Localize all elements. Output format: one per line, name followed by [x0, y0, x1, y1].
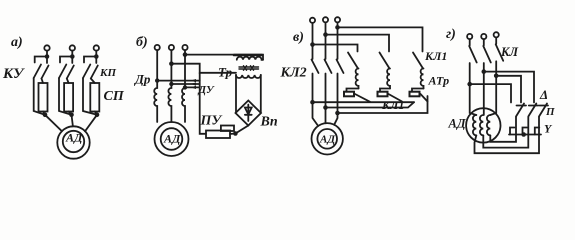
contact KU blade 2	[59, 65, 66, 79]
terminal 3	[94, 45, 99, 50]
svg-text:АД: АД	[163, 132, 181, 146]
node line1	[467, 82, 472, 87]
node tap3	[183, 85, 187, 89]
resistor R1	[39, 83, 48, 112]
contact KL blade 1	[469, 46, 477, 63]
switch P blade 3	[539, 104, 547, 117]
autotransformer winding 2	[387, 69, 390, 89]
resistor R2	[64, 83, 73, 112]
transformer Tr core lines	[239, 66, 259, 70]
wire winding2 end to pole2	[483, 117, 528, 148]
node PU right	[233, 131, 238, 136]
svg-text:ПУ: ПУ	[200, 114, 224, 129]
motor AD outer circle	[155, 122, 189, 156]
wire blade to resistor 3	[91, 79, 95, 84]
wire bus C	[338, 96, 428, 113]
arrow tap3	[191, 86, 197, 89]
wire blade to resistor 2	[67, 79, 69, 84]
wire tap2	[171, 83, 199, 85]
motor AD outer circle	[57, 126, 89, 158]
contact KU blade 3	[83, 65, 90, 79]
terminal 3	[494, 32, 499, 37]
node line3	[494, 74, 499, 79]
autotransformer winding 3	[421, 69, 424, 89]
svg-text:КЛ2: КЛ2	[280, 66, 307, 81]
node bus C	[335, 111, 340, 116]
node bus A	[310, 100, 315, 105]
svg-text:КУ: КУ	[2, 66, 25, 82]
contact KP blade 2	[67, 66, 74, 79]
svg-text:П: П	[545, 106, 555, 118]
node phase2 top	[70, 54, 75, 59]
switch P bar 2	[529, 105, 539, 107]
wire L-stub 1	[35, 57, 47, 63]
contact KL blade 2	[483, 46, 491, 63]
node phase2 bottom	[69, 113, 74, 118]
node line2	[169, 61, 174, 66]
switch P bar 3	[540, 105, 549, 107]
wire contact stem 2	[71, 57, 73, 64]
wire feed A to P switch	[470, 84, 511, 102]
wire bypass 3	[83, 78, 97, 115]
wire tap1	[157, 80, 200, 82]
svg-text:КЛ: КЛ	[500, 45, 518, 59]
wire bypass 1	[34, 78, 45, 115]
wire stem 2	[483, 39, 485, 45]
svg-text:АД: АД	[319, 133, 335, 145]
node phase3 bottom	[95, 113, 100, 118]
transformer Tr secondary winding	[236, 75, 261, 78]
star contact stub 1	[510, 128, 515, 135]
contact pad 3	[410, 92, 420, 97]
choke Dr phase2	[168, 50, 171, 122]
svg-text:АД: АД	[65, 131, 83, 145]
contact KL1 tap blade 2	[389, 94, 403, 102]
wire feed1 to branch1	[313, 45, 358, 52]
svg-text:Др: Др	[134, 72, 151, 87]
contact KL blade 3	[496, 44, 504, 61]
svg-text:б): б)	[136, 35, 148, 50]
svg-text:Δ: Δ	[539, 87, 548, 102]
wire H1 to transformer	[185, 55, 263, 60]
motor AD inner circle	[63, 131, 84, 152]
wire primary thick lead	[234, 54, 262, 57]
node tap1	[155, 78, 159, 82]
svg-text:а): а)	[11, 35, 23, 50]
contact KL1 blade branch3	[413, 53, 423, 69]
svg-text:Вп: Вп	[260, 115, 278, 130]
wire feed2 to branch2	[326, 35, 390, 52]
wire line3 upper	[337, 22, 339, 59]
wire DU bus down to PU	[200, 73, 206, 134]
transformer Tr primary winding	[237, 57, 263, 60]
wire rectifier bottom to node	[235, 126, 248, 134]
terminal 2	[169, 45, 174, 50]
contact KU blade 1	[34, 65, 41, 79]
contact KL2 blade 1	[312, 60, 319, 74]
wire resistor3 bottom	[95, 112, 97, 115]
terminal 3	[335, 17, 340, 22]
wire line2	[483, 63, 485, 115]
node bus B	[323, 105, 328, 110]
svg-text:КЛ1: КЛ1	[424, 49, 447, 63]
svg-text:СП: СП	[104, 89, 125, 104]
arrow tap2	[191, 82, 197, 85]
wire contact stem 3	[95, 57, 97, 64]
switch P bar 1	[517, 105, 527, 107]
svg-text:КП: КП	[99, 67, 116, 79]
node line3 top	[183, 52, 188, 57]
contact pad 2	[378, 92, 388, 97]
terminal 1	[44, 45, 49, 50]
resistor PU main box	[206, 131, 230, 139]
terminal 2	[323, 17, 328, 22]
choke Dr phase3	[182, 50, 185, 122]
contact KL1 blade branch2	[380, 53, 390, 69]
svg-text:АТр: АТр	[428, 74, 450, 88]
wire L-stub 3	[84, 57, 96, 63]
svg-text:в): в)	[293, 30, 304, 45]
motor winding 2	[480, 115, 483, 135]
wire to motor right	[85, 115, 97, 132]
wire line1	[470, 63, 477, 115]
wire L-stub 2	[60, 57, 72, 63]
wire contact stem 1	[46, 57, 48, 64]
resistor R3	[90, 83, 99, 112]
motor winding 1	[473, 115, 476, 135]
wire bus A	[313, 101, 415, 103]
wire line2 lower	[325, 74, 327, 124]
wire line3	[490, 61, 496, 115]
switch P blade 2	[528, 104, 536, 117]
wire feed3 to branch3	[338, 27, 423, 51]
terminal 3	[182, 45, 187, 50]
wire star bus Y	[509, 134, 541, 136]
wire secondary left lead down	[235, 75, 237, 112]
wire winding1 end to pole3	[475, 117, 540, 153]
diode inside rectifier	[245, 105, 252, 122]
contact KP blade 3	[91, 66, 98, 79]
switch P blade 1	[516, 104, 524, 117]
wire secondary right lead down	[260, 75, 262, 113]
svg-text:АД: АД	[448, 117, 467, 131]
node line1 feed	[310, 42, 315, 47]
wire stem 1	[469, 39, 471, 45]
terminal 1	[155, 45, 160, 50]
motor winding 3	[487, 115, 490, 135]
wire to motor left	[45, 115, 62, 131]
node line2 feed	[323, 32, 328, 37]
contact KL1 tap blade 3	[421, 94, 428, 102]
arrow tap1	[191, 79, 197, 82]
node line3 feed	[335, 25, 340, 30]
wire feed C to P switch	[484, 72, 534, 103]
node star point	[521, 132, 526, 137]
wire coil2 tap bend	[380, 89, 390, 92]
svg-text:г): г)	[446, 27, 456, 42]
wire tap3	[185, 86, 200, 88]
wire resistor1 bottom	[43, 112, 45, 115]
contact pad 1	[344, 92, 354, 97]
wire bus B	[326, 102, 415, 107]
resistor PU upper box	[221, 126, 234, 132]
contact KL2 blade 3	[337, 60, 344, 74]
wire line1 lower	[313, 74, 319, 127]
rectifier Vp bridge diamond	[236, 101, 262, 126]
motor AD inner circle	[317, 129, 337, 149]
wire terminal2 stem	[71, 51, 73, 57]
wire resistor2 bottom	[69, 112, 72, 115]
motor AD outer circle	[312, 123, 343, 154]
contact KL1 blade branch1	[348, 53, 358, 69]
wire terminal1 stem	[46, 51, 48, 57]
wire winding3 end to pole1	[490, 117, 516, 142]
star contact stub 3	[535, 128, 540, 135]
contact KL2 blade 2	[325, 60, 332, 74]
wire H2 to transformer primary	[171, 64, 236, 73]
terminal 2	[70, 45, 75, 50]
node tap2	[169, 82, 173, 86]
wire stem 3	[495, 37, 497, 43]
wire line1 upper	[312, 23, 314, 59]
node phase3 top	[94, 54, 99, 59]
wire blade to resistor 1	[42, 79, 44, 84]
contact KP blade 1	[42, 66, 49, 79]
motor AD inner circle	[161, 128, 183, 150]
contact KL1 tap blade 1	[355, 94, 370, 102]
wire feed B to P switch	[496, 76, 521, 103]
wire coil3 tap bend	[412, 89, 424, 92]
autotransformer winding 1	[356, 69, 359, 89]
wire line2 upper	[325, 22, 327, 59]
wire terminal3 stem	[95, 51, 97, 57]
choke Dr phase1 (wire with winding)	[154, 50, 157, 122]
terminal 2	[481, 34, 486, 39]
wire line3 lower	[334, 74, 337, 125]
motor AD circle	[466, 108, 500, 142]
wire node to PU	[230, 133, 235, 136]
node phase1 bottom	[43, 113, 48, 118]
star contact stub 2	[523, 128, 528, 135]
wire coil1 tap bend	[347, 89, 359, 92]
node phase1 top	[45, 54, 50, 59]
wire bypass 2	[59, 78, 72, 115]
wire to motor mid	[72, 115, 73, 127]
terminal 1	[467, 34, 472, 39]
svg-text:Y: Y	[544, 122, 553, 136]
terminal 1	[310, 18, 315, 23]
node line2	[482, 69, 487, 74]
